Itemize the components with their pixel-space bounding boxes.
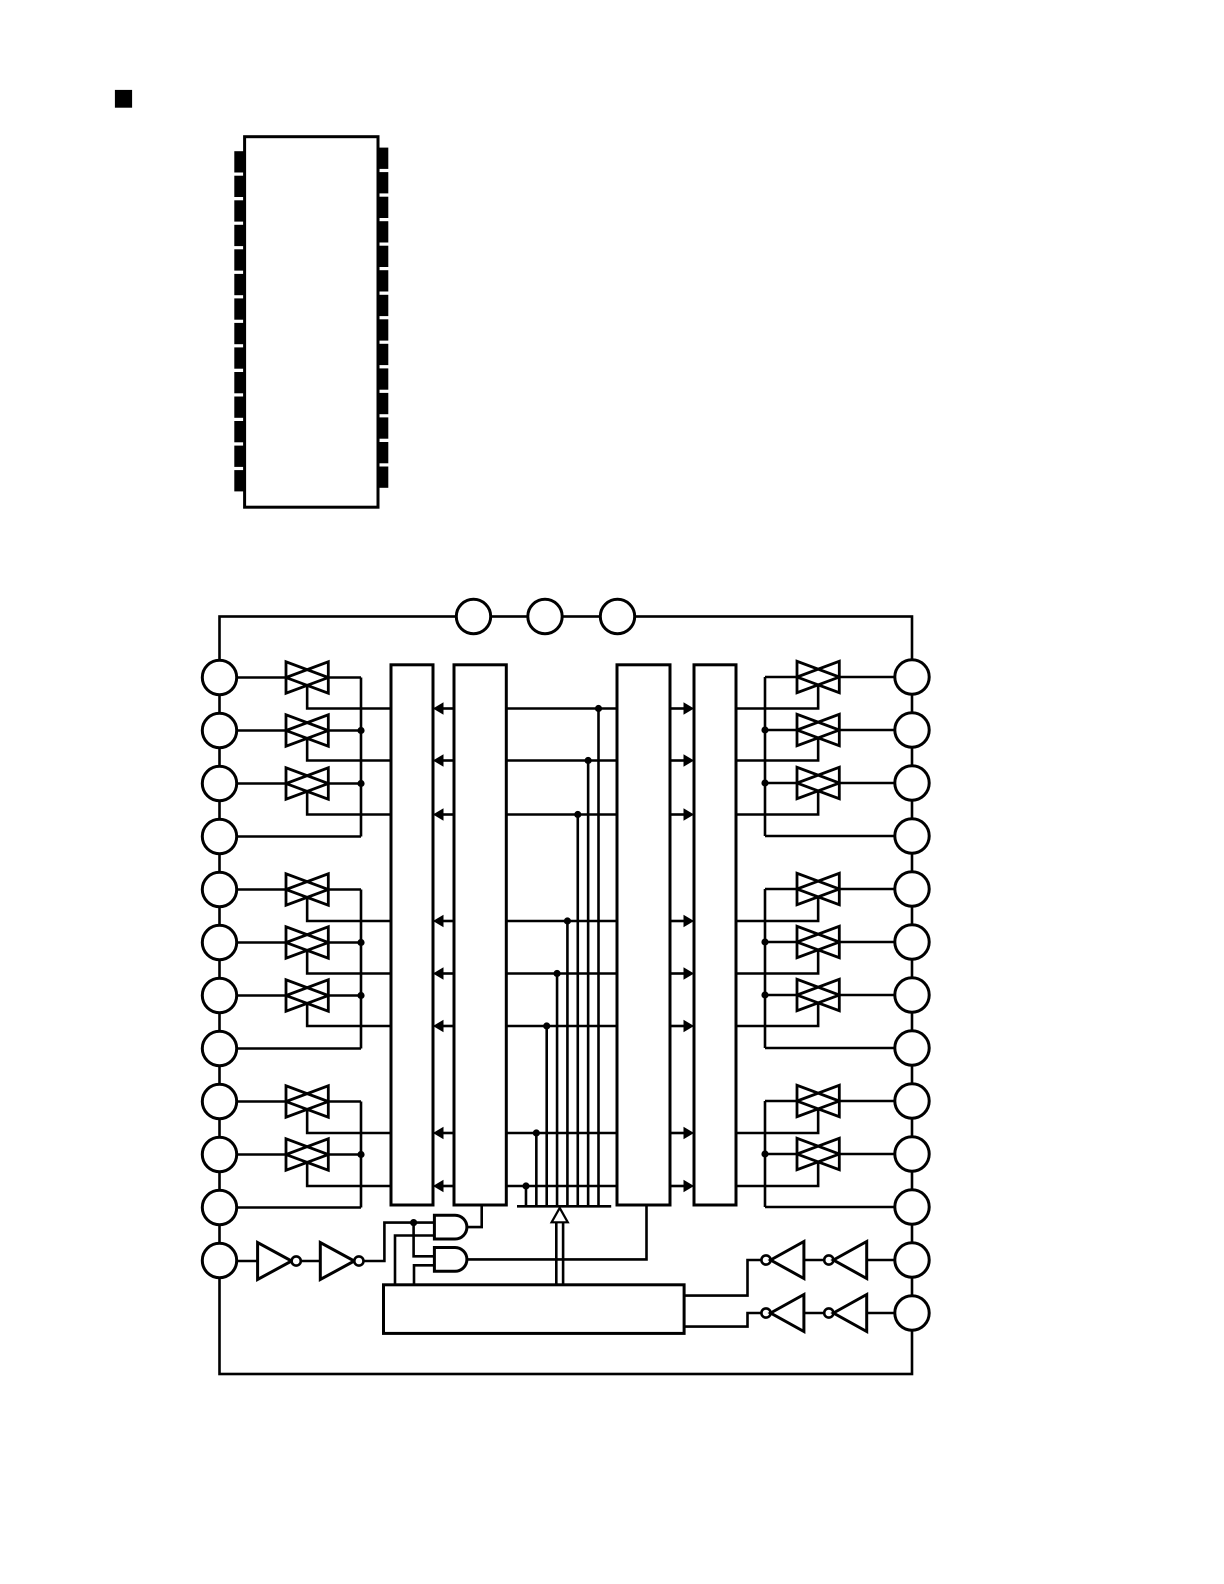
wire: TG-L3 gate to latch block U1 [307, 791, 391, 814]
package pin 21 (right) [378, 319, 388, 340]
package pin 6 (left) [234, 274, 244, 295]
wire: outer boundary loop [220, 617, 913, 1375]
wire: pin L3 to switch TG-L3 [236, 782, 286, 785]
wire: TG-L5 gate to latch block U1 [307, 897, 391, 921]
wire: U3 output arrow 1 into U4 [670, 707, 685, 710]
pin circle R11 [895, 1190, 929, 1224]
wire: N4b to pin [867, 1312, 896, 1315]
wire: data bus row 3 (U2 to U3) [506, 813, 617, 816]
section bullet square [115, 90, 132, 108]
transmission gate TG-L9 [286, 1086, 328, 1117]
pin circle L2 [202, 713, 236, 747]
wire: G2 output to U3 [467, 1205, 647, 1259]
wire: node to AND2 input [414, 1223, 435, 1257]
wire: U3 output arrow 4 into U4 [670, 920, 685, 923]
package pin 9 (left) [234, 347, 244, 368]
transmission gate TG-L2 [286, 715, 328, 746]
pin circle R5 [895, 872, 929, 906]
inverter N4b [824, 1308, 833, 1317]
inverter N4a [761, 1308, 770, 1317]
pin circle L12 [202, 1243, 236, 1277]
wire: U2 output arrow 6 into U1 [443, 1025, 455, 1028]
wire: TG-R6 output to pin R6 [839, 941, 896, 944]
wire: U4 to TG-R3 gate [736, 791, 818, 815]
transmission gate TG-R5 [797, 873, 839, 904]
junction: right common at row 10 [761, 1150, 768, 1157]
junction: bus row 4 tap [564, 917, 571, 924]
pin circle L3 [202, 766, 236, 800]
wire: pin L4 common row [236, 835, 361, 838]
wire: U3 output arrow 2 into U4 [670, 759, 685, 762]
junction: bus row 8 tap [522, 1182, 529, 1189]
package pin 17 (right) [378, 417, 388, 438]
package pin 13 (left) [234, 446, 244, 467]
pin circle L11 [202, 1190, 236, 1224]
wire: common node to switch TG-R3 [765, 782, 797, 785]
AND gate G2 [434, 1248, 467, 1272]
transmission gate TG-L1 [286, 662, 328, 693]
wire: TG-L9 output to common node [328, 1100, 361, 1103]
pin circle R10 [895, 1137, 929, 1171]
pin circle L4 [202, 819, 236, 853]
wire: data bus row 8 (U2 to U3) [506, 1185, 617, 1188]
U2 register block [454, 665, 506, 1205]
wire: TG-L6 gate to latch block U1 [307, 950, 391, 973]
wire: pin R11 common row [765, 1206, 896, 1209]
AND gate G1 [434, 1215, 467, 1239]
wire: U4 to TG-R10 gate [736, 1162, 818, 1186]
transmission gate TG-R3 [797, 767, 839, 798]
wire: U4 to TG-R7 gate [736, 1003, 818, 1026]
pin circle R8 [895, 1031, 929, 1065]
wire: U2 output arrow 1 into U1 [443, 707, 455, 710]
wire: U2 output arrow 7 into U1 [443, 1132, 455, 1135]
pin circle R7 [895, 978, 929, 1012]
pin circle T3 [600, 599, 634, 633]
package pin 7 (left) [234, 298, 244, 319]
wire: pin L12 to inverter N1 [236, 1260, 258, 1263]
inverter N1 [258, 1243, 292, 1280]
pin circle L9 [202, 1084, 236, 1118]
inverter N3b [824, 1255, 833, 1264]
wire: TG-R1 output to pin R1 [839, 676, 896, 679]
wire: common node to switch TG-R1 [765, 676, 797, 679]
junction: left common at row 10 [357, 1151, 364, 1158]
wire: data bus vertical 5 [556, 974, 559, 1207]
wire: U2 output arrow 4 into U1 [443, 920, 455, 923]
wire: left common vertical group 1 [360, 678, 363, 837]
wire: N4a to N4b [804, 1312, 824, 1315]
transmission gate TG-R2 [797, 714, 839, 745]
pin circle L8 [202, 1031, 236, 1065]
transmission gate TG-R10 [797, 1138, 839, 1169]
pin circle R13 [895, 1296, 929, 1330]
pin circle L1 [202, 660, 236, 694]
wire: common node to switch TG-R7 [765, 994, 797, 997]
wire: TG-L1 gate to latch block U1 [307, 685, 391, 708]
wire: data bus row 7 (U2 to U3) [506, 1132, 617, 1135]
wire: TG-L2 output to common node [328, 729, 361, 732]
wire: data bus vertical 6 [545, 1026, 548, 1206]
strobe hollow arrow head [552, 1208, 568, 1222]
wire: common node to switch TG-R6 [765, 941, 797, 944]
wire: TG-R2 output to pin R2 [839, 729, 896, 732]
wire: right common vertical group 2 [764, 889, 767, 1048]
wire: TG-R9 output to pin R9 [839, 1100, 896, 1103]
wire: TG-L9 gate to latch block U1 [307, 1109, 391, 1133]
pin circle L5 [202, 872, 236, 906]
transmission gate TG-L10 [286, 1139, 328, 1170]
wire: U3 output arrow 3 into U4 [670, 813, 685, 816]
wire: data bus row 4 (U2 to U3) [506, 920, 617, 923]
wire: U3 output arrow 8 into U4 [670, 1185, 685, 1188]
wire: U2 output arrow 5 into U1 [443, 972, 455, 975]
package pin 20 (right) [378, 344, 388, 365]
pin circle L10 [202, 1137, 236, 1171]
package pin 16 (right) [378, 442, 388, 463]
wire: N2 output to AND gates [364, 1223, 435, 1261]
wire: U4 to TG-R5 gate [736, 897, 818, 921]
junction: right common at row 6 [761, 938, 768, 945]
wire: pin R4 common row [765, 835, 896, 838]
wire: TG-L2 gate to latch block U1 [307, 738, 391, 760]
wire: TG-L10 output to common node [328, 1153, 361, 1156]
junction: bus row 6 tap [543, 1022, 550, 1029]
wire: U2 output arrow 2 into U1 [443, 759, 455, 762]
U4 latch/driver block [694, 665, 736, 1205]
wire: TG-L10 gate to latch block U1 [307, 1162, 391, 1186]
wire: TG-L7 gate to latch block U1 [307, 1003, 391, 1026]
wire: U3 output arrow 5 into U4 [670, 972, 685, 975]
wire: data bus vertical 1 [597, 709, 600, 1207]
wire: pin L2 to switch TG-L2 [236, 729, 286, 732]
wire: U2 output arrow 3 into U1 [443, 813, 455, 816]
wire: data bus row 1 (U2 to U3) [506, 707, 617, 710]
wire: U4 to TG-R6 gate [736, 950, 818, 974]
wire: left common vertical group 3 [360, 1102, 363, 1208]
wire: left common vertical group 2 [360, 890, 363, 1049]
junction: left common at row 2 [357, 727, 364, 734]
package pin 22 (right) [378, 295, 388, 316]
U1 latch/driver block [391, 665, 433, 1205]
wire: TG-L5 output to common node [328, 888, 361, 891]
pin circle T2 [528, 599, 562, 633]
inverter N3a [761, 1255, 770, 1264]
wire: right common vertical group 1 [764, 677, 767, 836]
wire: control block to AND2 input [414, 1265, 434, 1285]
junction: right common at row 3 [761, 779, 768, 786]
pin circle R3 [895, 766, 929, 800]
junction: right common at row 2 [761, 726, 768, 733]
wire: TG-L3 output to common node [328, 782, 361, 785]
wire: TG-R7 output to pin R7 [839, 994, 896, 997]
junction: bus row 2 tap [585, 757, 592, 764]
pin circle R12 [895, 1243, 929, 1277]
junction: bus row 7 tap [533, 1129, 540, 1136]
wire: U3 output arrow 6 into U4 [670, 1025, 685, 1028]
inverter N2 [320, 1243, 354, 1280]
package pin 5 (left) [234, 249, 244, 270]
wire: TG-L1 output to common node [328, 676, 361, 679]
package pin 11 (left) [234, 397, 244, 418]
transmission gate TG-R7 [797, 979, 839, 1010]
package pin 24 (right) [378, 246, 388, 267]
pin circle R6 [895, 925, 929, 959]
package pin 2 (left) [234, 176, 244, 197]
transmission gate TG-L5 [286, 874, 328, 905]
wire: TG-R10 output to pin R10 [839, 1153, 896, 1156]
wire: pin L6 to switch TG-L6 [236, 941, 286, 944]
wire: pin L9 to switch TG-L9 [236, 1100, 286, 1103]
package pin 4 (left) [234, 225, 244, 246]
package pin 25 (right) [378, 221, 388, 242]
wire: pin L10 to switch TG-L10 [236, 1153, 286, 1156]
wire: pin L8 common row [236, 1047, 361, 1050]
wire: data bus vertical 2 [587, 761, 590, 1207]
wire: N3b to pin [867, 1259, 896, 1262]
junction: right common at row 7 [761, 991, 768, 998]
wire: data bus row 5 (U2 to U3) [506, 972, 617, 975]
wire: data bus row 6 (U2 to U3) [506, 1025, 617, 1028]
wire: common node to switch TG-R5 [765, 888, 797, 891]
package pin 19 (right) [378, 368, 388, 389]
U3 register block [617, 665, 670, 1205]
package pin 14 (left) [234, 470, 244, 491]
wire: N1 to N2 [301, 1260, 321, 1263]
package pin 1 (left) [234, 151, 244, 172]
wire: data bus vertical 8 [525, 1186, 528, 1206]
package pin 23 (right) [378, 270, 388, 291]
pin circle R1 [895, 660, 929, 694]
wire: U4 to TG-R9 gate [736, 1109, 818, 1133]
package pin 18 (right) [378, 393, 388, 414]
pin circle R4 [895, 819, 929, 853]
wire: U5 to inverter chain 3 [684, 1260, 761, 1296]
transmission gate TG-L3 [286, 768, 328, 799]
package pin 10 (left) [234, 372, 244, 393]
transmission gate TG-R9 [797, 1085, 839, 1116]
wire: control block to AND1 input [395, 1236, 434, 1285]
wire: G1 output to U2 [467, 1205, 482, 1227]
wire: TG-R3 output to pin R3 [839, 782, 896, 785]
wire: U4 to TG-R2 gate [736, 738, 818, 761]
wire: bus terminator bar [517, 1205, 611, 1208]
wire: pin R8 common row [765, 1047, 896, 1050]
wire: data bus row 2 (U2 to U3) [506, 759, 617, 762]
wire: TG-L6 output to common node [328, 941, 361, 944]
wire: N3a to N3b [804, 1259, 824, 1262]
package pin 28 (right) [378, 148, 388, 169]
pin circle L6 [202, 925, 236, 959]
transmission gate TG-L6 [286, 927, 328, 958]
wire: U3 output arrow 7 into U4 [670, 1132, 685, 1135]
transmission gate TG-R1 [797, 661, 839, 692]
wire: common node to switch TG-R9 [765, 1100, 797, 1103]
wire: pin L11 common row [236, 1206, 361, 1209]
wire: pin L5 to switch TG-L5 [236, 888, 286, 891]
wire: U2 output arrow 8 into U1 [443, 1185, 455, 1188]
wire: data bus vertical 4 [566, 921, 569, 1206]
junction: left common at row 6 [357, 939, 364, 946]
junction: bus row 1 tap [595, 705, 602, 712]
wire: data bus vertical 3 [576, 815, 579, 1207]
junction: left common at row 7 [357, 992, 364, 999]
wire: common node to switch TG-R10 [765, 1153, 797, 1156]
IC package DIP-28 body [245, 137, 378, 508]
package pin 26 (right) [378, 197, 388, 218]
junction: left common at row 3 [357, 780, 364, 787]
wire: common node to switch TG-R2 [765, 729, 797, 732]
package pin 12 (left) [234, 421, 244, 442]
pin circle R2 [895, 713, 929, 747]
pin circle T1 [456, 599, 490, 633]
package pin 15 (right) [378, 467, 388, 488]
pin circle R9 [895, 1084, 929, 1118]
control logic block U5 [384, 1285, 685, 1334]
transmission gate TG-L7 [286, 980, 328, 1011]
wire: data bus vertical 7 [535, 1133, 538, 1206]
wire: pin L7 to switch TG-L7 [236, 994, 286, 997]
wire: TG-R5 output to pin R5 [839, 888, 896, 891]
wire: TG-L7 output to common node [328, 994, 361, 997]
wire: U4 to TG-R1 gate [736, 685, 818, 709]
package pin 8 (left) [234, 323, 244, 344]
junction: bus row 5 tap [553, 970, 560, 977]
pin circle L7 [202, 978, 236, 1012]
package pin 3 (left) [234, 200, 244, 221]
wire: U5 to inverter chain 4 [684, 1313, 761, 1327]
wire: pin L1 to switch TG-L1 [236, 676, 286, 679]
package pin 27 (right) [378, 172, 388, 193]
junction: bus row 3 tap [574, 811, 581, 818]
transmission gate TG-R6 [797, 926, 839, 957]
junction: AND input node [410, 1219, 417, 1226]
wire: right common vertical group 3 [764, 1101, 767, 1207]
wire: strobe hollow arrow shaft [555, 1222, 558, 1285]
